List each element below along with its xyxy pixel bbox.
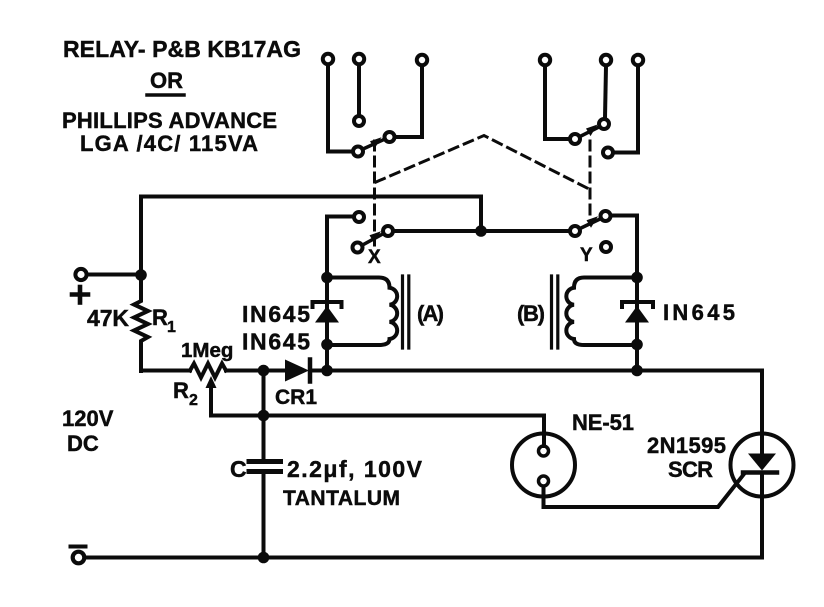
switch X contact circle G xyxy=(354,212,364,222)
terminal + circle xyxy=(75,269,86,280)
svg-text:RELAY- P&B KB17AG: RELAY- P&B KB17AG xyxy=(63,36,301,62)
svg-text:2N1595: 2N1595 xyxy=(647,433,726,458)
diode CR1 xyxy=(285,360,309,382)
svg-text:(B): (B) xyxy=(517,301,545,326)
wire relay A left vertical xyxy=(325,217,329,371)
relay B coil xyxy=(566,278,637,346)
svg-text:R: R xyxy=(173,378,189,403)
wire stem terminal 1 xyxy=(328,66,351,152)
node junction at 141,275 xyxy=(135,269,147,281)
node junction at 637,370.5 xyxy=(631,365,643,377)
svg-text:DC: DC xyxy=(67,431,99,456)
node junction at 637,344.5 xyxy=(631,339,643,351)
wire stem terminal 4 xyxy=(545,67,568,140)
relay A core bars xyxy=(401,276,404,348)
svg-text:IN645: IN645 xyxy=(663,300,735,325)
contact circle C2 xyxy=(354,116,364,126)
switch arm Y xyxy=(580,219,600,229)
switch arm upper-right xyxy=(580,127,599,137)
diode IN645 relay B xyxy=(622,302,653,307)
dashed mechanical link inverted V xyxy=(376,136,589,190)
svg-text:R: R xyxy=(152,305,168,330)
wire main horizontal from R1 to 1Meg xyxy=(141,369,190,373)
switch arm upper-left xyxy=(363,139,385,149)
relay contacts upper-left terminal 1 xyxy=(323,54,333,64)
label minus overbar xyxy=(71,545,86,549)
svg-text:CR1: CR1 xyxy=(275,386,317,409)
contact circle D xyxy=(570,134,580,144)
switch arm X xyxy=(363,234,384,246)
wire relay B right vertical xyxy=(635,216,639,371)
svg-text:LGA /4C/ 115VA: LGA /4C/ 115VA xyxy=(80,131,258,156)
wire Y tip to relay B xyxy=(612,214,638,218)
SCR 2N1595 xyxy=(731,434,794,497)
wire wiper to NE-51 xyxy=(211,416,544,447)
node junction at 327,277.5 xyxy=(321,272,333,284)
contact circle C3 xyxy=(385,132,395,142)
wire stem terminal 2 xyxy=(357,66,361,115)
node junction at 263.5,556.5 xyxy=(258,552,270,564)
node junction at 481,231 xyxy=(475,225,487,237)
switch X tip circle xyxy=(383,226,393,236)
svg-text:NE-51: NE-51 xyxy=(572,410,634,435)
label + sign xyxy=(72,292,88,297)
wire NE-51 bottom to SCR gate xyxy=(544,474,745,507)
terminal minus circle xyxy=(73,552,85,564)
svg-text:2: 2 xyxy=(189,392,198,409)
relay contacts upper-left terminal 3 xyxy=(417,55,427,65)
dashed mechanical link right vertical xyxy=(589,141,592,215)
wire stem terminal 5 xyxy=(605,67,606,118)
wire top-left long horizontal xyxy=(141,197,481,276)
svg-text:120V: 120V xyxy=(62,406,114,431)
relay contacts upper-right terminal 4 xyxy=(540,55,550,65)
svg-text:IN645: IN645 xyxy=(242,329,310,355)
node junction at 327,370.5 xyxy=(321,365,333,377)
node junction at 637,277.5 xyxy=(631,272,643,284)
underline under OR xyxy=(147,93,184,97)
node junction at 263.5,415.5 xyxy=(258,410,270,422)
wire bottom long xyxy=(85,556,762,560)
capacitor C xyxy=(262,371,266,460)
wire main horizontal 1Meg to CR1 xyxy=(226,369,285,373)
lamp NE-51 xyxy=(512,434,575,497)
wire X tip to Y pivot xyxy=(395,229,569,233)
relay contacts upper-right terminal 5 xyxy=(601,55,611,65)
svg-text:(A): (A) xyxy=(417,301,444,326)
contact circle F xyxy=(603,148,613,158)
diode IN645 relay A xyxy=(313,302,342,307)
contact circle E xyxy=(599,119,609,129)
resistor R2 1Meg xyxy=(190,364,226,378)
svg-text:PHILLIPS ADVANCE: PHILLIPS ADVANCE xyxy=(62,108,277,133)
svg-text:1: 1 xyxy=(167,319,176,336)
switch X pivot circle xyxy=(353,243,363,253)
svg-text:Y: Y xyxy=(580,245,593,266)
wire main horizontal CR1 to right edge xyxy=(310,371,762,434)
svg-text:SCR: SCR xyxy=(668,457,713,482)
resistor R1 47K xyxy=(134,275,148,371)
svg-text:TANTALUM: TANTALUM xyxy=(283,487,400,510)
wiper arrow of R2 xyxy=(209,384,213,416)
switch Y pivot circle xyxy=(570,226,580,236)
dashed mechanical link left vertical xyxy=(373,141,376,245)
relay contacts upper-left terminal 2 xyxy=(354,54,364,64)
wire from + terminal xyxy=(88,273,141,277)
relay B core bars xyxy=(550,276,553,348)
switch Y spare circle xyxy=(601,242,611,252)
svg-text:IN645: IN645 xyxy=(242,301,310,327)
relay A coil xyxy=(327,278,397,346)
wire G to relay A xyxy=(327,215,353,219)
switch Y tip circle xyxy=(601,211,611,221)
wire stem terminal 6 xyxy=(615,67,638,153)
svg-text:X: X xyxy=(368,247,381,268)
node junction at 263.5,370.5 xyxy=(258,365,270,377)
svg-text:OR: OR xyxy=(150,68,183,93)
wire stem terminal 3 xyxy=(396,67,422,138)
svg-text:C: C xyxy=(230,456,247,482)
contact circle C1 xyxy=(353,147,363,157)
node junction at 327,344.5 xyxy=(321,339,333,351)
svg-text:47K: 47K xyxy=(87,305,129,331)
relay contacts upper-right terminal 6 xyxy=(633,55,643,65)
svg-text:1Meg: 1Meg xyxy=(181,339,233,362)
